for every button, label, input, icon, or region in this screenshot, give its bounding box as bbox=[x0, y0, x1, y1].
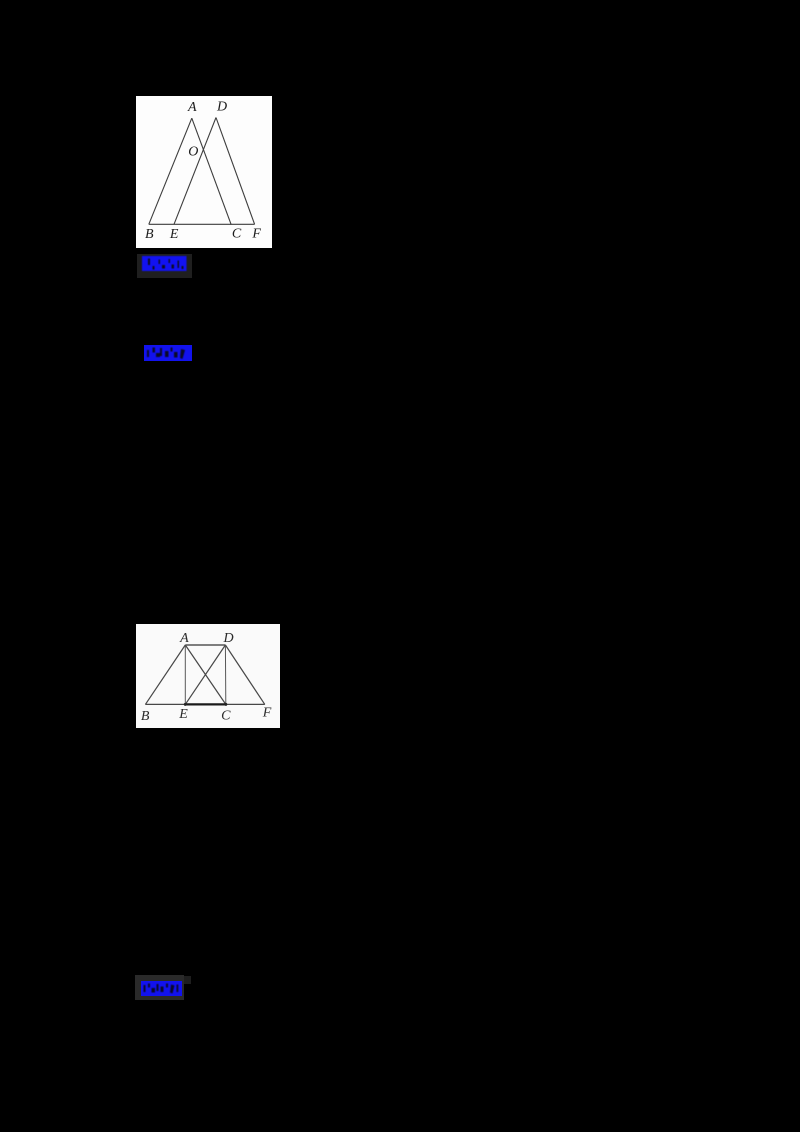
svg-text:F: F bbox=[262, 706, 272, 721]
figure 1: two overlapping triangles ABC / DEF bbox=[136, 96, 272, 248]
label 3 blue highlighted text bbox=[141, 981, 182, 996]
svg-text:F: F bbox=[251, 227, 261, 242]
svg-text:C: C bbox=[232, 227, 242, 242]
svg-text:D: D bbox=[216, 100, 227, 115]
node C dot bbox=[224, 703, 227, 706]
svg-text:E: E bbox=[178, 707, 188, 722]
svg-text:E: E bbox=[169, 227, 179, 242]
label 3 extra gray notch bbox=[184, 976, 191, 984]
label 2 blue highlighted text bbox=[144, 345, 192, 361]
wire top A-D bbox=[185, 644, 225, 646]
svg-text:B: B bbox=[141, 709, 150, 724]
wire B-A bbox=[149, 118, 192, 224]
svg-text:A: A bbox=[179, 631, 189, 646]
wire E-D bbox=[174, 118, 216, 225]
svg-text:O: O bbox=[188, 145, 198, 160]
wire D-F bbox=[225, 645, 264, 704]
node E dot bbox=[184, 703, 187, 706]
wire base line B-F bbox=[145, 703, 264, 705]
wire D-F bbox=[216, 118, 255, 225]
figure 2: trapezoid with triangles bbox=[136, 624, 280, 728]
label 1 blue glyphs bbox=[142, 256, 187, 276]
wire base line B-F bbox=[149, 223, 255, 225]
wire A-C bbox=[192, 118, 231, 225]
wire B-A bbox=[145, 645, 185, 704]
label 1 gray highlight box bbox=[137, 254, 193, 278]
wire D-C bbox=[224, 645, 226, 704]
svg-text:C: C bbox=[221, 709, 231, 724]
label 3 gray highlight box bbox=[135, 975, 184, 1000]
svg-text:A: A bbox=[187, 100, 197, 115]
svg-text:D: D bbox=[223, 631, 234, 646]
wire A-E bbox=[184, 645, 186, 704]
wire E-D diagonal bbox=[185, 645, 225, 704]
wire A-C diagonal bbox=[185, 645, 226, 704]
svg-text:B: B bbox=[145, 227, 154, 242]
wire E-C bold segment bbox=[185, 703, 226, 705]
